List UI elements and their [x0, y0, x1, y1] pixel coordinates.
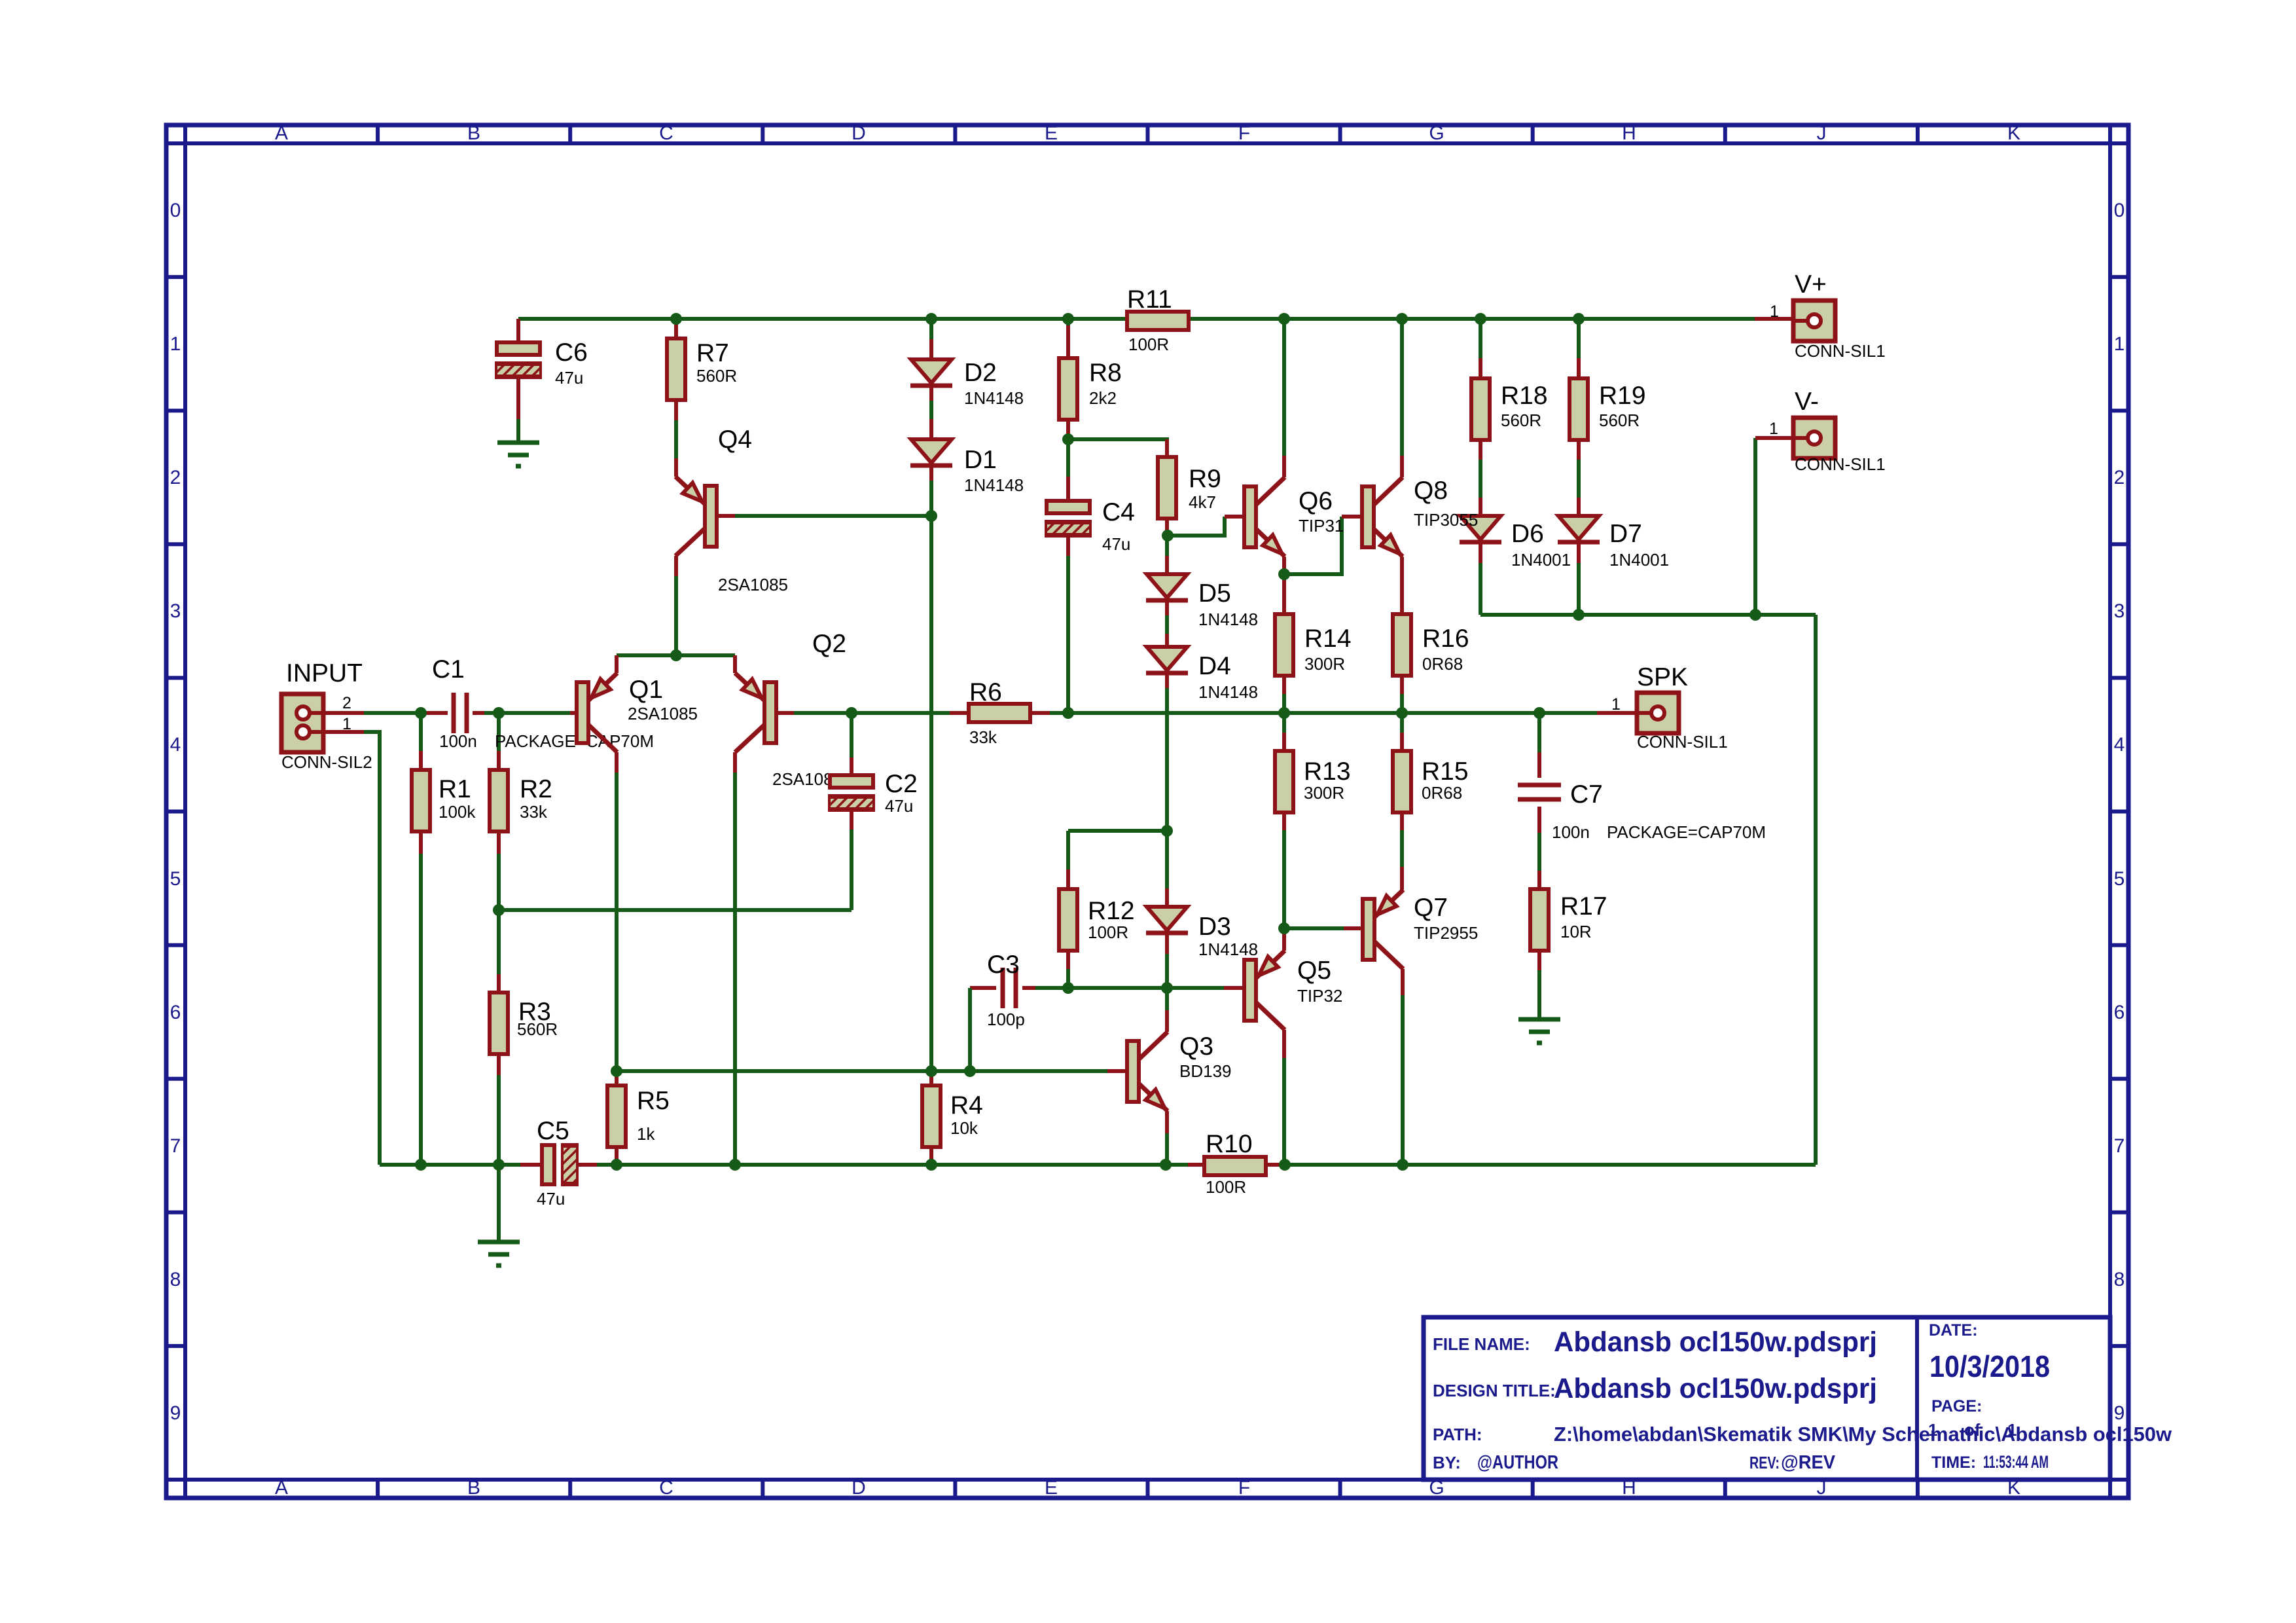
svg-text:PATH:: PATH:	[1433, 1425, 1482, 1444]
wire R10 right lead	[1266, 1163, 1283, 1167]
node output C7 SPK	[1534, 707, 1545, 719]
svg-text:7: 7	[2114, 1135, 2125, 1157]
svg-text:B: B	[467, 122, 480, 144]
svg-text:8: 8	[2114, 1269, 2125, 1290]
wire R7 bottom lead	[674, 400, 678, 420]
node V+ R19	[1573, 313, 1585, 325]
resistor R4	[922, 1085, 941, 1147]
svg-text:K: K	[2007, 122, 2020, 144]
wire D5 cathode lead	[1165, 600, 1169, 615]
wire V- terminal drop	[1753, 438, 1757, 615]
svg-text:V+: V+	[1795, 270, 1827, 299]
wire D7 anode lead	[1577, 498, 1581, 516]
svg-text:47u: 47u	[555, 368, 583, 388]
svg-text:Q2: Q2	[812, 630, 846, 658]
svg-text:A: A	[275, 122, 288, 144]
svg-text:F: F	[1238, 122, 1250, 144]
svg-text:FILE NAME:: FILE NAME:	[1433, 1334, 1530, 1354]
node V+ Q8	[1396, 313, 1408, 325]
wire node to R1	[419, 713, 423, 751]
svg-text:R12: R12	[1088, 897, 1135, 925]
wire INPUT pin1 to ground rail	[364, 732, 380, 1165]
svg-text:H: H	[1622, 122, 1636, 144]
transistor Q1	[577, 673, 617, 752]
node C1 R1	[415, 707, 427, 719]
diode D4	[1146, 647, 1188, 673]
wire Q5 collector lead	[1282, 1030, 1286, 1058]
svg-text:1N4148: 1N4148	[1198, 610, 1258, 629]
wire D6 to V- line	[1479, 563, 1482, 615]
svg-text:Abdansb ocl150w.pdsprj: Abdansb ocl150w.pdsprj	[1554, 1326, 1877, 1358]
wire Q6 emitter to Q8 base	[1284, 517, 1342, 574]
svg-text:DATE:: DATE:	[1929, 1321, 1978, 1340]
node Q2 base C2	[846, 707, 857, 719]
wire C1 right lead	[473, 711, 484, 715]
svg-text:R15: R15	[1422, 757, 1469, 786]
wire R12 node to D3 node	[1068, 986, 1167, 990]
svg-text:R6: R6	[969, 678, 1002, 706]
node V+ R7	[670, 313, 682, 325]
wire Q2 collector down	[733, 773, 737, 1165]
svg-text:1: 1	[2114, 333, 2125, 355]
svg-text:B: B	[467, 1477, 480, 1499]
node R1 ground rail	[415, 1159, 427, 1171]
svg-text:2: 2	[342, 694, 351, 712]
resistor R2	[490, 770, 508, 831]
svg-text:J: J	[1817, 122, 1827, 144]
svg-text:R8: R8	[1089, 359, 1122, 387]
transistor Q4	[675, 477, 717, 556]
svg-text:E: E	[1045, 122, 1058, 144]
svg-text:1N4148: 1N4148	[1198, 939, 1258, 959]
wire Q4 base pin	[716, 514, 735, 518]
node R12 C3	[1062, 982, 1074, 994]
svg-text:33k: 33k	[969, 727, 997, 747]
wire R16 to output line	[1400, 694, 1404, 713]
resistor R13	[1275, 751, 1293, 812]
svg-text:6: 6	[170, 1002, 181, 1023]
wire R15 to Q7	[1400, 830, 1404, 867]
resistor R5	[607, 1085, 626, 1147]
wire Q7 emitter lead	[1400, 867, 1404, 890]
transistor Q5	[1244, 951, 1285, 1030]
node Q6 emitter	[1278, 568, 1290, 580]
terminal INPUT	[281, 694, 324, 752]
svg-text:4: 4	[2114, 734, 2125, 756]
svg-text:V-: V-	[1795, 388, 1819, 416]
wire node to C2	[850, 713, 853, 757]
node C3 VAS line	[964, 1065, 976, 1077]
wire D2 cathode lead	[929, 386, 933, 401]
wire node to Q3 collector	[1165, 988, 1169, 1010]
wire Q1 collector down	[615, 773, 619, 1071]
wire VAS base line	[617, 1069, 1107, 1073]
wire C6 to ground	[516, 419, 520, 443]
svg-text:R7: R7	[696, 339, 729, 367]
wire feedback line	[499, 908, 852, 912]
node R6 C4 output	[1062, 707, 1074, 719]
svg-text:SPK: SPK	[1637, 663, 1688, 691]
wire R2 to feedback node	[497, 854, 501, 910]
svg-text:0: 0	[170, 200, 181, 221]
svg-text:1: 1	[2007, 1420, 2017, 1440]
node Q1 collector R5	[611, 1065, 622, 1077]
svg-text:D5: D5	[1198, 579, 1231, 608]
svg-text:9: 9	[2114, 1402, 2125, 1424]
capacitor C1	[454, 693, 467, 733]
svg-text:CONN-SIL1: CONN-SIL1	[1795, 454, 1886, 474]
wire R2 top lead	[497, 751, 501, 770]
wire node to R2	[497, 713, 501, 751]
transistor Q8	[1362, 477, 1403, 556]
node V+ R8	[1062, 313, 1074, 325]
svg-text:@AUTHOR: @AUTHOR	[1477, 1452, 1558, 1473]
wire C6 bottom lead	[516, 377, 520, 419]
wire R4 bottom lead	[929, 1147, 933, 1160]
svg-text:CONN-SIL1: CONN-SIL1	[1795, 341, 1886, 361]
svg-text:BD139: BD139	[1179, 1061, 1232, 1081]
wire Q2 collector lead	[733, 752, 737, 773]
svg-text:1N4148: 1N4148	[1198, 682, 1258, 702]
svg-text:2: 2	[170, 467, 181, 488]
wire Q2 base to node	[794, 711, 852, 715]
node R8 R9 C4	[1062, 433, 1074, 445]
svg-text:C3: C3	[987, 951, 1020, 979]
wire R15 bottom lead	[1400, 812, 1404, 830]
svg-text:PACKAGE=CAP70M: PACKAGE=CAP70M	[1607, 822, 1766, 842]
resistor R6	[969, 704, 1030, 722]
wire Q3 base pin	[1107, 1069, 1127, 1073]
wire C4 to output line	[1066, 556, 1070, 713]
diode D5	[1146, 574, 1188, 600]
svg-text:1N4001: 1N4001	[1609, 550, 1669, 570]
wire Q1 Q2 emitters	[617, 653, 735, 657]
ground	[478, 1242, 520, 1266]
capacitor C4	[1037, 501, 1109, 536]
svg-text:5: 5	[2114, 868, 2125, 890]
resistor R14	[1275, 614, 1293, 676]
wire Q8 base pin	[1342, 515, 1362, 519]
wire R14 to output line	[1282, 694, 1286, 713]
svg-text:11:53:44 AM: 11:53:44 AM	[1983, 1452, 2049, 1472]
wire R13 to Q5 node	[1282, 830, 1286, 928]
wire D3 cathode lead	[1165, 933, 1169, 954]
wire rail to R8	[1066, 319, 1070, 325]
node Q3 emitter rail	[1160, 1159, 1172, 1171]
wire R3 to ground rail	[497, 1075, 501, 1165]
diode D7	[1558, 516, 1600, 542]
svg-text:Q7: Q7	[1414, 894, 1448, 922]
wire R18 top lead	[1479, 358, 1482, 378]
wire R10 left lead	[1188, 1163, 1204, 1167]
wire R5 to rail	[615, 1160, 619, 1165]
wire D1 to node	[929, 481, 933, 516]
svg-text:1: 1	[1770, 302, 1779, 321]
svg-text:TIME:: TIME:	[1931, 1453, 1976, 1472]
wire R5 bottom lead	[615, 1147, 619, 1160]
capacitor C5	[528, 1145, 626, 1184]
wire Q2 emitter lead	[733, 655, 737, 673]
svg-text:Q5: Q5	[1297, 957, 1331, 985]
wire D3 node to Q5 base	[1167, 986, 1224, 990]
wire R8 to node	[1066, 436, 1070, 439]
transistor Q7	[1363, 890, 1403, 969]
wire D5 to D4	[1165, 615, 1169, 634]
svg-text:A: A	[275, 1477, 288, 1499]
wire D1 node down to R4	[929, 516, 933, 1076]
wire R7 to Q4	[674, 420, 678, 458]
resistor R15	[1393, 751, 1411, 812]
wire C4 bottom lead	[1066, 536, 1070, 556]
svg-text:R17: R17	[1560, 892, 1607, 921]
node R2 feedback	[493, 904, 505, 916]
wire Q4 collector lead	[674, 556, 678, 576]
wire C7 top lead	[1537, 752, 1541, 778]
svg-text:F: F	[1238, 1477, 1250, 1499]
resistor R8	[1059, 358, 1077, 420]
wire C3 left lead	[970, 986, 996, 990]
wire R1 bottom lead	[419, 833, 423, 854]
wire R13 bottom lead	[1282, 812, 1286, 830]
node R4 rail	[925, 1159, 937, 1171]
wire D2 anode lead	[929, 339, 933, 359]
svg-text:560R: 560R	[696, 366, 737, 386]
wire node to C4	[1066, 439, 1070, 477]
wire R1 top lead	[419, 751, 423, 770]
svg-text:R1: R1	[439, 775, 471, 803]
svg-text:8: 8	[170, 1269, 181, 1290]
svg-text:C: C	[659, 122, 673, 144]
wire R17 top lead	[1537, 871, 1541, 889]
svg-text:D6: D6	[1511, 520, 1544, 548]
svg-text:5: 5	[170, 868, 181, 890]
wire R14 top lead	[1282, 574, 1286, 614]
diode D2	[910, 359, 952, 386]
wire C2 bottom lead	[850, 810, 853, 830]
node V- terminal	[1749, 609, 1761, 621]
svg-text:560R: 560R	[1501, 410, 1541, 430]
wire D4 anode lead	[1165, 634, 1169, 647]
wire R4 top lead	[929, 1076, 933, 1085]
wire R12 top lead	[1066, 869, 1070, 889]
svg-text:BY:: BY:	[1433, 1453, 1461, 1472]
resistor R18	[1471, 378, 1490, 440]
svg-text:0: 0	[2114, 200, 2125, 221]
svg-text:R14: R14	[1304, 625, 1352, 653]
wire R12 bottom lead	[1066, 951, 1070, 969]
svg-text:D1: D1	[964, 446, 997, 474]
wire R12 top line	[1068, 829, 1167, 833]
wire V- rail left	[597, 1163, 1188, 1167]
wire D2 to D1	[929, 401, 933, 419]
wire Q6 base pin	[1225, 515, 1244, 519]
node Q4 base D1	[925, 510, 937, 522]
wire C1 left lead	[421, 711, 448, 715]
svg-text:C4: C4	[1102, 498, 1135, 526]
wire rail to Q8 collector	[1400, 319, 1404, 456]
node C1 R2 Q1 base	[493, 707, 505, 719]
svg-text:@REV: @REV	[1781, 1452, 1836, 1473]
svg-text:C: C	[659, 1477, 673, 1499]
svg-text:10/3/2018: 10/3/2018	[1929, 1349, 2050, 1383]
svg-text:3: 3	[2114, 600, 2125, 622]
wire rail to R18	[1479, 319, 1482, 358]
svg-text:D2: D2	[964, 359, 997, 387]
wire input to C1	[364, 711, 421, 715]
transistor Q3	[1127, 1032, 1168, 1111]
svg-text:Q8: Q8	[1414, 477, 1448, 505]
wire D4 cathode lead	[1165, 673, 1169, 688]
wire Q5 collector to rail	[1282, 1058, 1286, 1165]
wire D6 anode lead	[1479, 498, 1482, 516]
wire Q4 emitter lead	[674, 458, 678, 477]
svg-text:PACKAGE=CAP70M: PACKAGE=CAP70M	[495, 731, 654, 751]
svg-text:100p: 100p	[987, 1010, 1025, 1029]
svg-text:47u: 47u	[885, 796, 913, 816]
title block	[1424, 1317, 2110, 1480]
svg-text:Q3: Q3	[1179, 1032, 1213, 1061]
svg-text:1: 1	[170, 333, 181, 355]
node V+ Q6	[1278, 313, 1290, 325]
capacitor C6	[487, 342, 560, 377]
wire R5 top lead	[615, 1071, 619, 1085]
wire R3 top lead	[497, 974, 501, 993]
node V+ D2	[925, 313, 937, 325]
wire SPK pin	[1597, 711, 1637, 715]
svg-text:R16: R16	[1422, 625, 1469, 653]
wire R8 node to R9	[1068, 439, 1167, 457]
wire R19 top lead	[1577, 358, 1581, 378]
wire C3 right lead	[1022, 986, 1035, 990]
terminal VMINUS	[1793, 418, 1835, 458]
wire Q4 collector to Q1 Q2	[674, 576, 678, 655]
node R13 Q5 Q7	[1278, 922, 1290, 934]
wire Q5 node to Q7 base	[1284, 926, 1344, 930]
node Q1 Q2 emitters	[670, 649, 682, 661]
svg-text:1N4148: 1N4148	[964, 475, 1024, 495]
node D7 V- line	[1573, 609, 1585, 621]
svg-text:C6: C6	[555, 338, 588, 367]
wire Q7 base pin	[1344, 926, 1363, 930]
wire C5 right lead	[577, 1163, 597, 1167]
wire R18 bottom lead	[1479, 440, 1482, 460]
wire R12 to C3 line	[1066, 969, 1070, 988]
svg-text:100k: 100k	[439, 802, 476, 822]
svg-text:C2: C2	[885, 770, 918, 798]
wire corner to R12	[1066, 831, 1070, 869]
wire R17 bottom lead	[1537, 951, 1541, 970]
wire R19 bottom lead	[1577, 440, 1581, 460]
resistor R12	[1059, 889, 1077, 951]
wire Q1 base pin	[570, 711, 577, 715]
svg-text:TIP2955: TIP2955	[1414, 923, 1478, 943]
wire R6 left lead	[950, 711, 969, 715]
wire C3 to VAS base line	[968, 988, 972, 1071]
svg-text:D: D	[852, 122, 866, 144]
wire Q3 emitter lead	[1165, 1111, 1169, 1133]
svg-text:6: 6	[2114, 1002, 2125, 1023]
svg-text:47u: 47u	[1102, 534, 1130, 554]
capacitor C3	[1003, 968, 1016, 1008]
resistor R10	[1204, 1157, 1266, 1175]
ground	[1518, 1019, 1560, 1043]
wire D4 to R12 node	[1165, 688, 1169, 831]
svg-text:1: 1	[1769, 420, 1778, 438]
wire V+ rail	[518, 317, 1755, 321]
node R12 D3	[1161, 825, 1173, 837]
svg-text:100R: 100R	[1128, 335, 1169, 354]
svg-text:7: 7	[170, 1135, 181, 1157]
wire V- rail right	[1283, 1163, 1816, 1167]
wire R9 top lead	[1165, 439, 1169, 457]
node Q2 collector rail	[729, 1159, 741, 1171]
node R14 R13 output	[1278, 707, 1290, 719]
wire R9 bottom lead	[1165, 519, 1169, 536]
wire rail to R19	[1577, 319, 1581, 358]
wire R9 node to Q6 base	[1168, 517, 1225, 536]
node R3 ground	[493, 1159, 505, 1171]
wire node to R6	[852, 711, 950, 715]
resistor R3	[490, 993, 508, 1054]
wire rail to Q6 collector	[1282, 319, 1286, 456]
resistor R16	[1393, 614, 1411, 676]
svg-text:E: E	[1045, 1477, 1058, 1499]
node R16 R15 output	[1396, 707, 1408, 719]
wire V+ terminal pin	[1755, 317, 1793, 321]
wire output to C7	[1537, 713, 1541, 752]
wire Q6 emitter lead	[1282, 557, 1286, 574]
wire to ground	[497, 1165, 501, 1242]
diode D3	[1146, 907, 1188, 933]
svg-text:R10: R10	[1206, 1130, 1253, 1158]
svg-text:1N4148: 1N4148	[964, 388, 1024, 408]
svg-text:1: 1	[1928, 1420, 1937, 1440]
svg-text:560R: 560R	[1599, 410, 1640, 430]
svg-text:TIP3055: TIP3055	[1414, 510, 1478, 530]
svg-text:2: 2	[2114, 467, 2125, 488]
wire output to R13	[1282, 713, 1286, 733]
svg-text:300R: 300R	[1304, 654, 1345, 674]
resistor R11	[1127, 312, 1189, 330]
wire Q1 collector lead	[615, 752, 619, 773]
svg-text:300R: 300R	[1304, 783, 1344, 803]
wire output to SPK	[1539, 711, 1597, 715]
wire D7 cathode lead	[1577, 542, 1581, 563]
wire output to R15	[1400, 713, 1404, 733]
svg-text:R19: R19	[1599, 382, 1646, 410]
wire D1 anode lead	[929, 419, 933, 439]
svg-text:33k: 33k	[520, 802, 548, 822]
node V+ R18	[1475, 313, 1486, 325]
wire D1 cathode lead	[929, 465, 933, 481]
wire Q4 base to D1	[735, 514, 931, 518]
svg-text:9: 9	[170, 1402, 181, 1424]
wire Q7 collector lead	[1401, 969, 1405, 995]
svg-text:Q6: Q6	[1299, 487, 1333, 515]
svg-text:D7: D7	[1609, 520, 1642, 548]
wire C3 to R12 node	[1035, 986, 1068, 990]
svg-text:2SA1085: 2SA1085	[718, 575, 788, 594]
svg-text:4k7: 4k7	[1189, 492, 1216, 512]
svg-text:of: of	[1964, 1420, 1981, 1440]
capacitor C7	[1518, 785, 1561, 799]
wire C5 left lead	[520, 1163, 542, 1167]
wire R2 bottom lead	[497, 833, 501, 854]
terminal VPLUS	[1793, 301, 1835, 341]
wire Q8 collector lead	[1400, 456, 1404, 477]
wire Q2 base pin	[776, 711, 794, 715]
wire R6 to node	[1050, 711, 1068, 715]
